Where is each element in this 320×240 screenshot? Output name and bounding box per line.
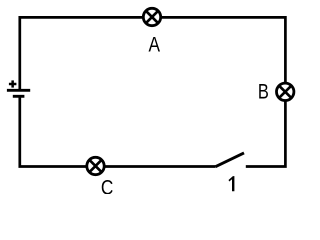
- label B: [258, 81, 269, 105]
- battery + polarity sign: [9, 80, 17, 87]
- label A: [148, 33, 160, 57]
- switch 1 lever (open): [215, 153, 244, 167]
- battery negative plate (short): [13, 95, 25, 98]
- wire: left-top-right loop (from battery + terminal up, across top, down right side): [20, 17, 286, 166]
- lamp B (circle with X): [277, 83, 294, 100]
- battery positive plate (long): [7, 89, 30, 92]
- lamp C (circle with X): [87, 157, 104, 174]
- svg-text:A: A: [148, 33, 160, 57]
- svg-text:C: C: [101, 176, 113, 194]
- wire: bottom loop (from battery - terminal down, along bottom to switch pivot): [20, 96, 215, 166]
- label C: [101, 176, 113, 200]
- lamp A (circle with X): [143, 8, 160, 25]
- svg-text:B: B: [258, 81, 269, 105]
- label 1 (switch), drawn as path: [229, 176, 235, 191]
